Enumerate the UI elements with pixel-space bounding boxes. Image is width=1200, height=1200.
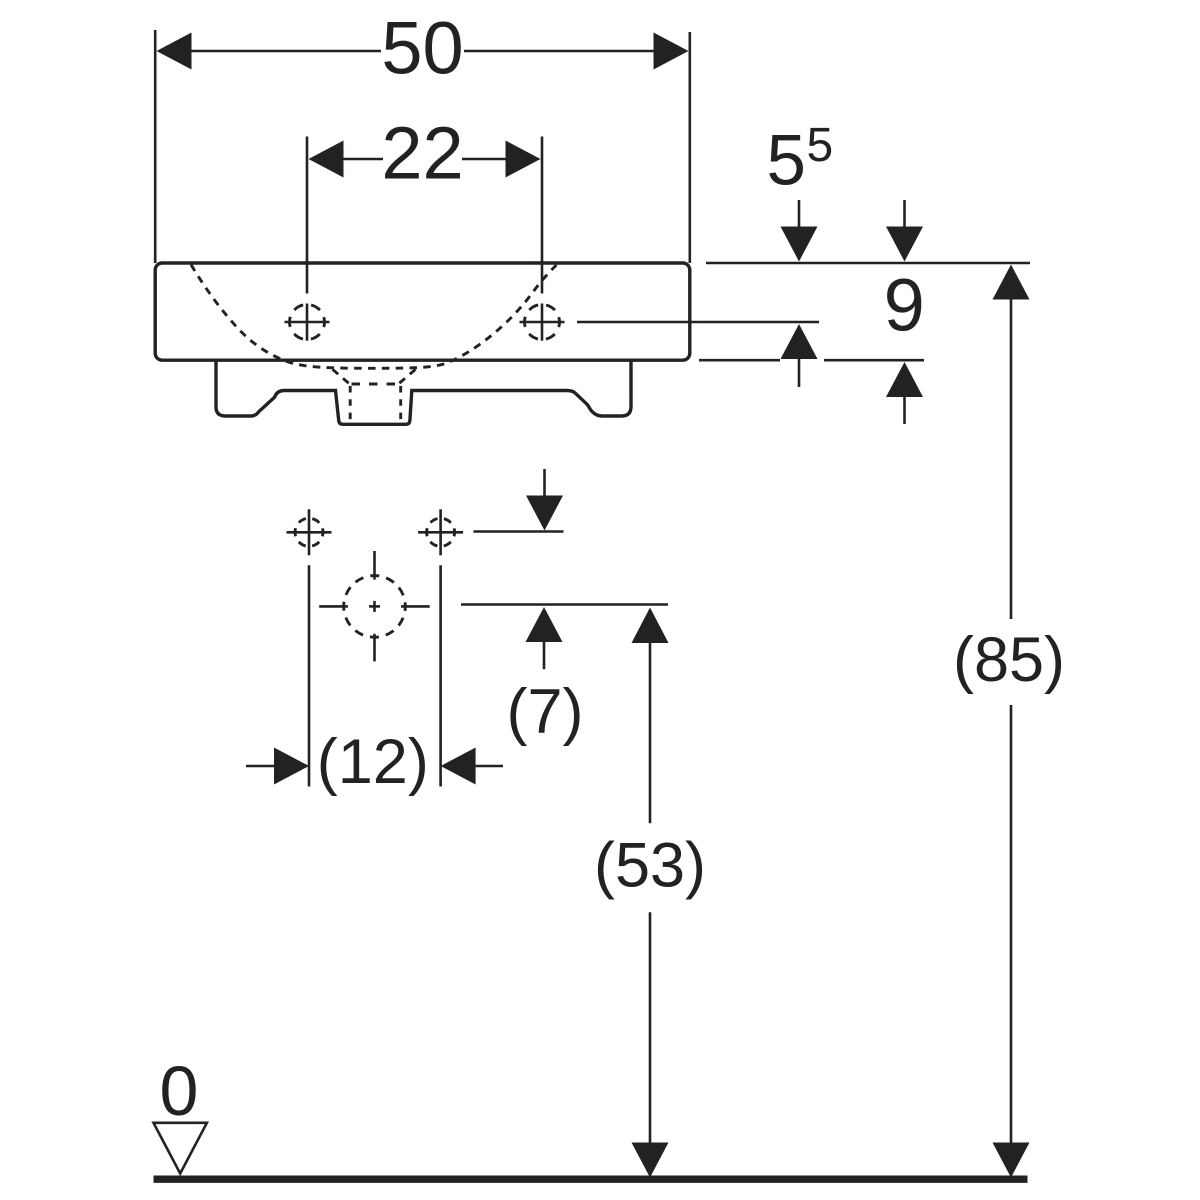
svg-text:0: 0 bbox=[160, 1052, 199, 1130]
svg-text:22: 22 bbox=[381, 112, 463, 195]
svg-text:(85): (85) bbox=[953, 625, 1065, 695]
svg-text:(53): (53) bbox=[594, 831, 706, 901]
svg-text:(12): (12) bbox=[317, 727, 429, 797]
svg-text:5: 5 bbox=[767, 122, 807, 201]
svg-text:5: 5 bbox=[807, 119, 834, 172]
svg-text:50: 50 bbox=[381, 7, 463, 90]
svg-text:(7): (7) bbox=[507, 677, 584, 747]
svg-text:9: 9 bbox=[884, 264, 925, 347]
